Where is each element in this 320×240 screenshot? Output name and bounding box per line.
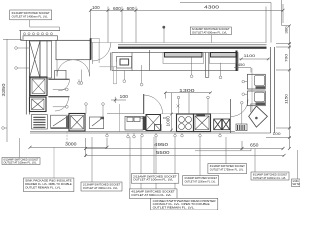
svg-text:600: 600 [113,6,121,11]
svg-text:OUTLET AT 600mm FL. LVL: OUTLET AT 600mm FL. LVL [83,187,119,190]
svg-text:SLID: SLID [140,116,146,120]
svg-text:100: 100 [273,132,281,136]
svg-text:1000: 1000 [166,115,171,126]
svg-text:4300: 4300 [204,5,220,10]
svg-text:OUTLET AT 100mm FL. LVL: OUTLET AT 100mm FL. LVL [4,162,38,165]
svg-text:1100: 1100 [244,53,257,58]
svg-text:OUTLET AT 600mm FL. LVL: OUTLET AT 600mm FL. LVL [131,194,172,197]
svg-text:100: 100 [92,5,100,10]
svg-text:OUTLET AT 1400mm FL. LVL: OUTLET AT 1400mm FL. LVL [12,15,49,18]
svg-text:OUTLET AT 1750mm FL. LVL: OUTLET AT 1750mm FL. LVL [210,169,244,172]
svg-text:6/13AMP SWITCHED SOCKET: 6/13AMP SWITCHED SOCKET [12,12,51,15]
svg-text:OUTLET AT 100mm FL. LVL: OUTLET AT 100mm FL. LVL [133,179,174,182]
svg-text:1300: 1300 [179,88,195,93]
svg-text:100: 100 [120,94,129,99]
svg-text:5500: 5500 [156,150,170,155]
svg-text:700: 700 [283,53,288,62]
svg-text:1150: 1150 [283,93,288,104]
svg-text:OUTLET REMAIN FL. LVL.: OUTLET REMAIN FL. LVL. [25,186,61,189]
svg-text:650: 650 [250,143,259,148]
svg-text:3350: 3350 [1,83,6,97]
svg-text:450: 450 [238,63,245,67]
svg-text:OUTLET AT 1100mm FL. LVL: OUTLET AT 1100mm FL. LVL [253,177,287,180]
svg-text:OUTLET AT 600mm FL. LVL: OUTLET AT 600mm FL. LVL [192,32,228,35]
svg-text:600: 600 [127,6,135,11]
svg-text:300: 300 [283,26,288,34]
svg-text:OUTLET REMAIN FL. LVL.: OUTLET REMAIN FL. LVL. [153,207,195,210]
svg-text:OUTLET AT 1100mm FL. LVL: OUTLET AT 1100mm FL. LVL [185,181,217,184]
svg-text:SW SK: SW SK [292,183,300,186]
